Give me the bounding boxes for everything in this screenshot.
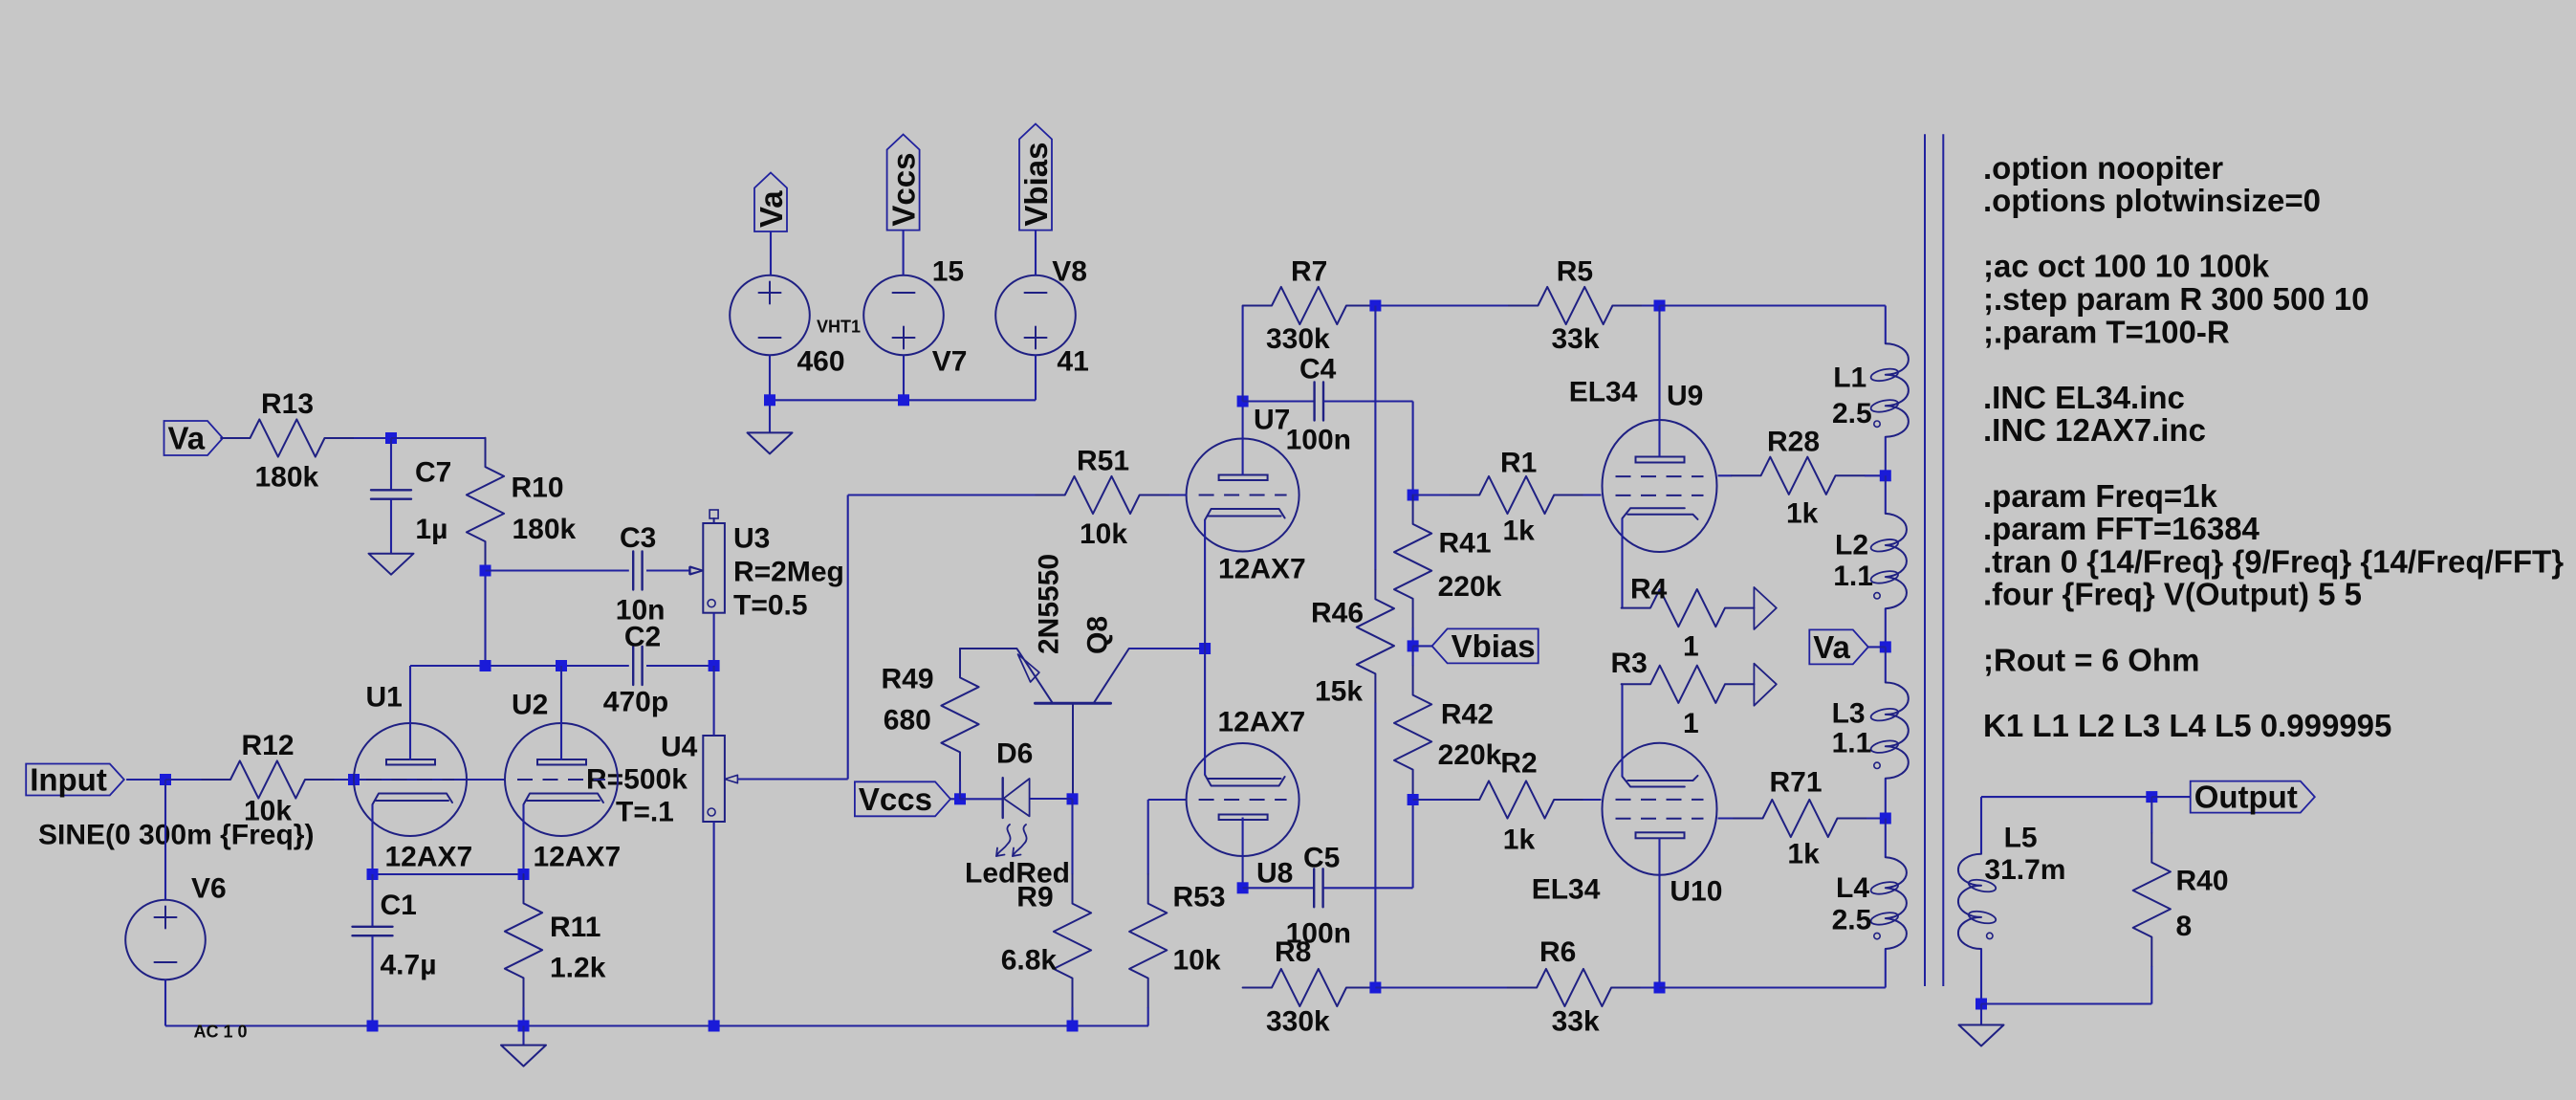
svg-text:V8: V8 bbox=[1052, 256, 1087, 288]
svg-text:680: 680 bbox=[884, 705, 931, 737]
svg-text:R4: R4 bbox=[1630, 574, 1668, 605]
svg-text:R46: R46 bbox=[1311, 598, 1364, 629]
svg-text:V6: V6 bbox=[191, 873, 227, 905]
svg-text:R5: R5 bbox=[1557, 256, 1593, 288]
svg-text:1k: 1k bbox=[1786, 498, 1819, 530]
svg-text:EL34: EL34 bbox=[1569, 377, 1638, 408]
svg-text:330k: 330k bbox=[1266, 323, 1330, 355]
svg-text:R53: R53 bbox=[1173, 882, 1226, 913]
svg-text:C3: C3 bbox=[620, 522, 656, 554]
svg-text:R28: R28 bbox=[1767, 427, 1820, 458]
svg-text:Va: Va bbox=[753, 190, 789, 228]
svg-text:Input: Input bbox=[30, 762, 107, 798]
svg-text:12AX7: 12AX7 bbox=[1218, 554, 1306, 585]
svg-text:1: 1 bbox=[1683, 631, 1699, 663]
svg-text:R51: R51 bbox=[1077, 446, 1129, 477]
svg-text:Va: Va bbox=[168, 421, 206, 456]
svg-text:2.5: 2.5 bbox=[1832, 905, 1872, 936]
svg-text:L1: L1 bbox=[1833, 363, 1867, 394]
svg-text:12AX7: 12AX7 bbox=[1218, 707, 1306, 738]
svg-text:180k: 180k bbox=[255, 462, 319, 494]
svg-text:U2: U2 bbox=[512, 690, 548, 721]
svg-text:.param Freq=1k: .param Freq=1k bbox=[1983, 478, 2218, 514]
svg-text:R49: R49 bbox=[882, 664, 934, 695]
svg-text:D6: D6 bbox=[996, 738, 1033, 770]
svg-text:U1: U1 bbox=[366, 682, 403, 714]
svg-text:U8: U8 bbox=[1256, 858, 1293, 890]
svg-text:U9: U9 bbox=[1667, 381, 1703, 412]
svg-text:C7: C7 bbox=[415, 456, 451, 488]
svg-text:R=2Meg: R=2Meg bbox=[733, 557, 844, 588]
svg-text:U4: U4 bbox=[661, 732, 698, 763]
svg-text:Vbias: Vbias bbox=[1452, 628, 1536, 664]
svg-text:8: 8 bbox=[2176, 911, 2193, 942]
svg-text:10k: 10k bbox=[1173, 945, 1221, 977]
svg-text:470p: 470p bbox=[603, 687, 668, 718]
svg-text:T=0.5: T=0.5 bbox=[733, 590, 808, 622]
svg-text:;Rout = 6 Ohm: ;Rout = 6 Ohm bbox=[1983, 642, 2199, 677]
svg-text:1.1: 1.1 bbox=[1832, 728, 1872, 759]
svg-text:Output: Output bbox=[2194, 780, 2298, 815]
svg-text:K1 L1 L2 L3 L4 L5 0.999995: K1 L1 L2 L3 L4 L5 0.999995 bbox=[1983, 708, 2391, 743]
svg-text:2N5550: 2N5550 bbox=[1034, 554, 1065, 654]
svg-text:R1: R1 bbox=[1500, 447, 1537, 478]
svg-text:1k: 1k bbox=[1503, 825, 1536, 856]
svg-text:180k: 180k bbox=[513, 514, 577, 545]
svg-text:C4: C4 bbox=[1299, 354, 1337, 385]
svg-text:330k: 330k bbox=[1266, 1005, 1330, 1037]
svg-text:C1: C1 bbox=[381, 890, 417, 921]
svg-text:EL34: EL34 bbox=[1532, 874, 1601, 906]
svg-text:C5: C5 bbox=[1303, 843, 1340, 874]
svg-text:12AX7: 12AX7 bbox=[534, 842, 622, 873]
svg-text:.tran 0 {14/Freq} {9/Freq} {14: .tran 0 {14/Freq} {9/Freq} {14/Freq/FFT} bbox=[1983, 543, 2564, 579]
svg-text:4.7µ: 4.7µ bbox=[381, 950, 437, 981]
svg-text:Va: Va bbox=[1813, 629, 1850, 665]
svg-text:;.step param R 300 500 10: ;.step param R 300 500 10 bbox=[1983, 281, 2369, 317]
svg-text:1.1: 1.1 bbox=[1833, 561, 1873, 592]
svg-text:L2: L2 bbox=[1835, 529, 1868, 561]
svg-text:R10: R10 bbox=[512, 473, 564, 504]
svg-text:;ac oct 100 10 100k: ;ac oct 100 10 100k bbox=[1983, 249, 2270, 284]
svg-text:1: 1 bbox=[1683, 708, 1699, 739]
svg-text:2.5: 2.5 bbox=[1832, 398, 1872, 429]
svg-text:.INC 12AX7.inc: .INC 12AX7.inc bbox=[1983, 412, 2206, 448]
svg-text:U3: U3 bbox=[733, 523, 770, 555]
svg-text:460: 460 bbox=[797, 346, 845, 378]
svg-text:10k: 10k bbox=[1080, 518, 1127, 550]
svg-text:L5: L5 bbox=[2004, 822, 2038, 853]
svg-text:R13: R13 bbox=[261, 388, 314, 420]
svg-text:R11: R11 bbox=[550, 912, 600, 943]
svg-text:31.7m: 31.7m bbox=[1984, 854, 2065, 886]
svg-text:.param FFT=16384: .param FFT=16384 bbox=[1983, 511, 2260, 546]
svg-text:12AX7: 12AX7 bbox=[385, 842, 473, 873]
svg-text:R71: R71 bbox=[1770, 767, 1823, 799]
svg-text:Q8: Q8 bbox=[1082, 616, 1114, 654]
svg-text:VHT1: VHT1 bbox=[817, 318, 861, 337]
svg-text:15k: 15k bbox=[1315, 676, 1363, 708]
svg-text:U7: U7 bbox=[1254, 405, 1290, 436]
svg-text:L4: L4 bbox=[1836, 872, 1869, 904]
svg-text:;.param T=100-R: ;.param T=100-R bbox=[1983, 314, 2230, 349]
svg-text:33k: 33k bbox=[1552, 1005, 1600, 1037]
svg-text:Vccs: Vccs bbox=[859, 781, 932, 817]
svg-text:1.2k: 1.2k bbox=[550, 953, 606, 984]
svg-text:R41: R41 bbox=[1439, 528, 1492, 560]
svg-text:V7: V7 bbox=[932, 346, 968, 378]
svg-text:15: 15 bbox=[932, 256, 964, 288]
svg-text:R12: R12 bbox=[242, 730, 295, 761]
svg-text:R6: R6 bbox=[1539, 936, 1576, 968]
svg-text:R7: R7 bbox=[1291, 256, 1327, 288]
svg-text:R9: R9 bbox=[1016, 882, 1053, 913]
svg-text:.INC EL34.inc: .INC EL34.inc bbox=[1983, 380, 2185, 415]
svg-text:.four {Freq} V(Output) 5 5: .four {Freq} V(Output) 5 5 bbox=[1983, 577, 2362, 612]
svg-text:Vbias: Vbias bbox=[1018, 143, 1054, 227]
svg-text:R2: R2 bbox=[1500, 748, 1537, 780]
svg-text:220k: 220k bbox=[1438, 739, 1502, 771]
svg-text:1k: 1k bbox=[1787, 839, 1820, 870]
svg-text:SINE(0 300m {Freq}): SINE(0 300m {Freq}) bbox=[38, 820, 314, 851]
svg-text:R40: R40 bbox=[2176, 866, 2229, 897]
svg-text:C2: C2 bbox=[624, 622, 661, 653]
svg-text:AC 1 0: AC 1 0 bbox=[194, 1022, 248, 1041]
svg-text:33k: 33k bbox=[1552, 323, 1600, 355]
svg-text:R8: R8 bbox=[1275, 936, 1311, 968]
svg-text:R3: R3 bbox=[1611, 648, 1648, 679]
svg-text:41: 41 bbox=[1057, 346, 1088, 378]
svg-text:1µ: 1µ bbox=[415, 514, 448, 545]
svg-text:.options plotwinsize=0: .options plotwinsize=0 bbox=[1983, 183, 2321, 218]
svg-text:L3: L3 bbox=[1832, 697, 1866, 729]
svg-text:220k: 220k bbox=[1438, 571, 1502, 603]
svg-text:6.8k: 6.8k bbox=[1001, 945, 1058, 977]
svg-text:R42: R42 bbox=[1441, 699, 1494, 731]
svg-text:T=.1: T=.1 bbox=[616, 797, 674, 828]
svg-text:Vccs: Vccs bbox=[885, 153, 921, 227]
svg-text:100n: 100n bbox=[1286, 425, 1351, 456]
svg-text:.option noopiter: .option noopiter bbox=[1983, 150, 2223, 186]
svg-text:U10: U10 bbox=[1670, 875, 1722, 907]
svg-text:1k: 1k bbox=[1503, 516, 1536, 547]
